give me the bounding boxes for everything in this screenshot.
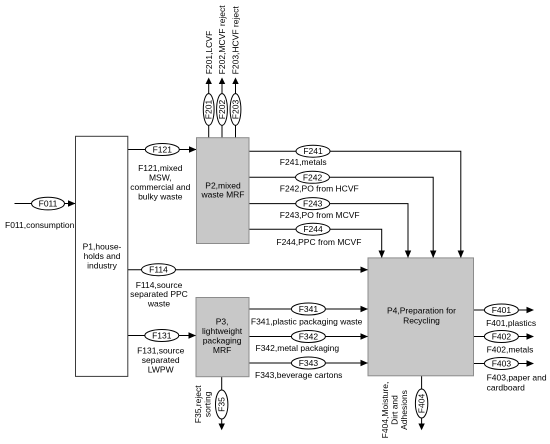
svg-text:LWPW: LWPW	[148, 364, 174, 374]
svg-text:F35,reject: F35,reject	[193, 385, 203, 423]
svg-text:F341: F341	[299, 304, 319, 314]
svg-text:F401: F401	[492, 305, 512, 315]
svg-text:bulky waste: bulky waste	[138, 191, 183, 201]
svg-text:F243: F243	[303, 199, 323, 209]
svg-text:lightweight: lightweight	[202, 326, 243, 336]
svg-text:F342,metal packaging: F342,metal packaging	[256, 343, 340, 353]
svg-text:F343,beverage cartons: F343,beverage cartons	[255, 370, 342, 380]
svg-text:separated: separated	[142, 355, 180, 365]
svg-text:F011,consumption: F011,consumption	[5, 220, 75, 230]
svg-text:F404: F404	[417, 394, 427, 414]
svg-text:F341,plastic packaging waste: F341,plastic packaging waste	[251, 317, 363, 327]
svg-text:waste: waste	[147, 299, 170, 309]
svg-text:F242: F242	[303, 172, 323, 182]
svg-text:F35: F35	[217, 397, 227, 412]
svg-text:commercial and: commercial and	[130, 182, 190, 192]
svg-text:F121,mixed: F121,mixed	[138, 163, 183, 173]
svg-text:Recycling: Recycling	[403, 315, 440, 325]
svg-text:Adhesions: Adhesions	[399, 390, 409, 430]
svg-text:F403,paper and: F403,paper and	[487, 373, 547, 383]
svg-text:Dirt and: Dirt and	[390, 395, 400, 425]
svg-text:MSW,: MSW,	[149, 172, 172, 182]
svg-text:separated PPC: separated PPC	[130, 289, 188, 299]
svg-text:sorting: sorting	[203, 391, 213, 417]
svg-text:F342: F342	[299, 332, 319, 342]
svg-text:F241: F241	[303, 146, 323, 156]
svg-text:F011: F011	[39, 199, 58, 209]
svg-text:F203,HCVF reject: F203,HCVF reject	[231, 6, 241, 75]
svg-text:F402: F402	[492, 332, 512, 342]
svg-text:F243,PO from MCVF: F243,PO from MCVF	[280, 210, 360, 220]
svg-text:F244: F244	[303, 224, 323, 234]
svg-text:F121: F121	[153, 145, 173, 155]
svg-text:F201: F201	[204, 100, 214, 120]
svg-text:F114: F114	[149, 265, 168, 275]
svg-text:industry: industry	[87, 260, 118, 270]
svg-text:F201,LCVF: F201,LCVF	[204, 31, 214, 74]
svg-text:F202: F202	[217, 100, 227, 120]
svg-text:F202,MCVF reject: F202,MCVF reject	[217, 5, 227, 75]
svg-text:P1,house-: P1,house-	[83, 242, 122, 252]
svg-text:F131: F131	[152, 331, 172, 341]
svg-text:waste MRF: waste MRF	[201, 190, 245, 200]
svg-text:F241,metals: F241,metals	[280, 157, 327, 167]
svg-text:P4,Preparation for: P4,Preparation for	[387, 306, 456, 316]
svg-text:F402,metals: F402,metals	[487, 345, 534, 355]
svg-text:F343: F343	[299, 358, 319, 368]
svg-text:MRF: MRF	[213, 345, 231, 355]
svg-text:F203: F203	[231, 100, 241, 120]
svg-text:F404,Moisture,: F404,Moisture,	[380, 382, 390, 439]
svg-text:F403: F403	[492, 359, 512, 369]
svg-text:F401,plastics: F401,plastics	[486, 318, 536, 328]
svg-text:F242,PO from HCVF: F242,PO from HCVF	[280, 183, 359, 193]
svg-text:F244,PPC from MCVF: F244,PPC from MCVF	[276, 237, 361, 247]
svg-text:cardboard: cardboard	[487, 382, 526, 392]
